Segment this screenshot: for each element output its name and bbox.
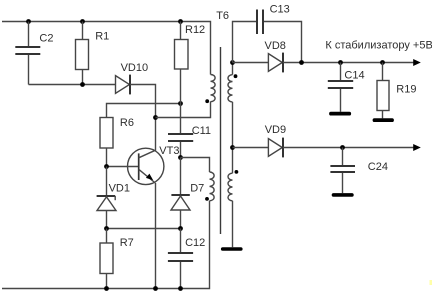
node C14 tap <box>338 60 343 65</box>
node secondary lower polarity dot <box>235 170 239 174</box>
wire VD1-D7 anode bus <box>107 228 181 230</box>
capacitor C2 <box>15 22 40 85</box>
transistor VT3 <box>107 148 164 288</box>
node VD8/C13 output junction <box>299 60 304 65</box>
output arrow +5V <box>413 59 421 66</box>
svg-text:C11: C11 <box>192 125 211 137</box>
diode D7 <box>171 158 190 229</box>
svg-text:R7: R7 <box>120 237 134 249</box>
wire R12-bottom to R6-top <box>107 104 181 118</box>
transformer T6 primary winding <box>211 75 216 102</box>
watermark speck <box>430 280 432 285</box>
capacitor C13 <box>233 10 302 63</box>
node primary polarity dot <box>205 99 209 103</box>
node R19 tap <box>380 60 385 65</box>
diode VD9 <box>233 138 284 158</box>
ground C14 <box>329 112 351 116</box>
svg-text:C24: C24 <box>368 161 388 173</box>
wire VD10 cathode to collector column <box>130 85 156 151</box>
svg-text:C14: C14 <box>344 69 364 81</box>
wire +5V output <box>283 62 414 64</box>
transformer T6 secondary upper winding <box>228 63 233 148</box>
node center-tap/VD9 junction <box>230 145 235 150</box>
svg-text:R6: R6 <box>120 117 134 129</box>
wire top rail <box>2 22 211 75</box>
node R6/base/VD1 junction <box>104 164 109 169</box>
svg-text:VD10: VD10 <box>121 62 149 74</box>
zener diode VD1 <box>97 167 116 229</box>
transformer T6 secondary lower winding <box>228 148 233 248</box>
wire collector to transformer primary bottom <box>156 102 211 118</box>
resistor R12 <box>175 22 189 104</box>
wire to feedback winding top <box>181 158 210 173</box>
svg-text:VD8: VD8 <box>265 40 286 52</box>
node D7/C12 junction <box>178 226 183 231</box>
node C11/D7/feedback junction <box>178 155 183 160</box>
capacitor C11 <box>168 104 193 158</box>
svg-text:D7: D7 <box>190 183 204 195</box>
svg-text:R12: R12 <box>185 24 205 36</box>
svg-text:C2: C2 <box>39 33 53 45</box>
resistor R7 <box>100 229 113 289</box>
diode VD8 <box>233 53 284 73</box>
resistor R19 <box>377 63 389 119</box>
capacitor C24 <box>330 148 355 194</box>
node C24 tap <box>340 145 345 150</box>
transformer T6 core <box>220 47 222 234</box>
wire C2-R1-VD10 horizontal <box>29 84 116 86</box>
ground R19 <box>373 118 394 122</box>
wire bottom rail <box>2 201 210 289</box>
capacitor C12 <box>168 229 193 289</box>
svg-text:VD9: VD9 <box>265 124 286 136</box>
svg-text:C13: C13 <box>270 4 290 16</box>
svg-text:К стабилизатору +5В: К стабилизатору +5В <box>325 39 432 51</box>
output arrow second <box>413 144 421 151</box>
svg-text:VT3: VT3 <box>159 145 179 157</box>
node top-rail/C2 junction <box>26 19 31 24</box>
node C12/bottom-rail junction <box>178 286 183 291</box>
transformer T6 feedback winding <box>210 172 215 201</box>
node secondary upper polarity dot <box>234 74 238 78</box>
node R1-bottom junction <box>80 82 85 87</box>
wire second output <box>283 147 414 149</box>
node secondary-top/VD8/C13 junction <box>230 60 235 65</box>
diode VD10 <box>116 75 131 95</box>
node top-rail/R1 junction <box>80 19 85 24</box>
resistor R1 <box>76 22 89 85</box>
ground C24 <box>332 193 354 197</box>
node emitter/bottom-rail junction <box>153 286 158 291</box>
node feedback polarity dot <box>205 197 209 201</box>
node R12/C11/R6 junction <box>178 101 183 106</box>
svg-text:R1: R1 <box>95 31 109 43</box>
capacitor C14 <box>328 63 353 112</box>
node R7/bottom-rail junction <box>104 286 109 291</box>
ground transformer secondary <box>221 247 243 251</box>
svg-text:T6: T6 <box>216 10 229 22</box>
svg-text:R19: R19 <box>396 84 416 96</box>
resistor R6 <box>100 118 113 167</box>
node top-rail/R12 junction <box>178 19 183 24</box>
svg-text:C12: C12 <box>185 237 205 249</box>
svg-text:VD1: VD1 <box>109 183 130 195</box>
node collector/primary junction <box>153 115 158 120</box>
node VD1/R7 junction <box>104 226 109 231</box>
